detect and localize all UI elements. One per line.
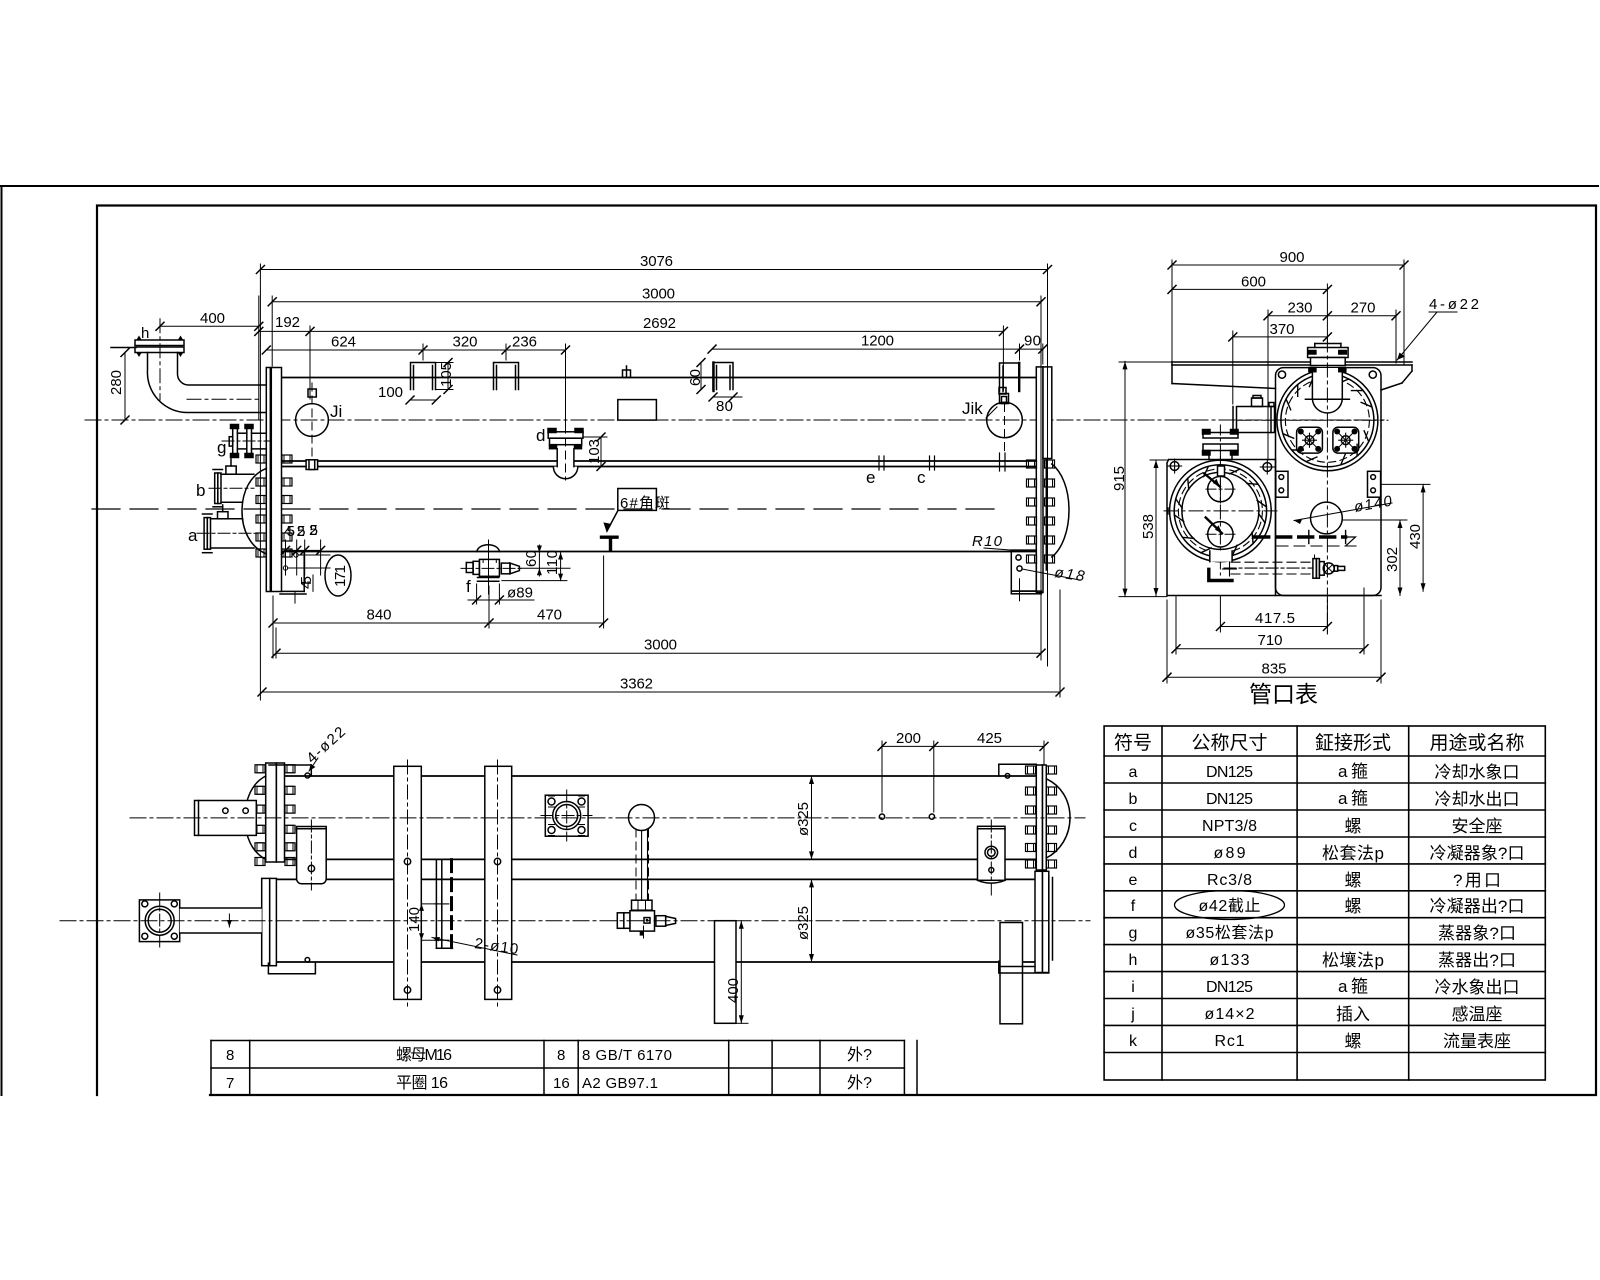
bottom opening of lower circle: [1210, 551, 1232, 562]
svg-text:Ji: Ji: [330, 402, 342, 421]
svg-text:鉦接形式: 鉦接形式: [1315, 732, 1391, 754]
dim 417.5: [1219, 596, 1221, 633]
tube pass square right: [1333, 427, 1359, 453]
svg-text:蒸器象?口: 蒸器象?口: [1438, 924, 1516, 943]
svg-text:R10: R10: [972, 533, 1003, 550]
svg-text:e: e: [866, 468, 875, 487]
side lug plates: [1276, 471, 1288, 497]
support bracket 4 (right) on shell top: [1000, 363, 1020, 392]
svg-text:3076: 3076: [640, 253, 673, 270]
lower plate corner hole marks: [1168, 459, 1182, 473]
lower shell centerline (bottom view): [60, 920, 1090, 922]
dim 230: [1268, 315, 1327, 317]
svg-text:110: 110: [544, 550, 561, 575]
lower circle centerlines: [1164, 510, 1277, 512]
g nozzle flange pair (end view): [1203, 425, 1239, 462]
dim ø325 upper: [795, 776, 814, 859]
dim 835: [1166, 600, 1168, 683]
svg-text:400: 400: [725, 978, 742, 1003]
support bracket 2 on shell top: [494, 363, 519, 390]
upper plate corner holes: [1278, 371, 1285, 378]
svg-text:d: d: [536, 426, 545, 445]
svg-text:430: 430: [1407, 524, 1424, 549]
nozzle table grid: [1104, 726, 1545, 1080]
svg-text:900: 900: [1280, 249, 1305, 266]
lower flange circle rings: [1170, 460, 1272, 562]
svg-text:松套法p: 松套法p: [1322, 844, 1384, 863]
pipe lines to k valve: [1224, 562, 1313, 574]
dim 370: [1233, 336, 1328, 338]
svg-text:915: 915: [1111, 466, 1128, 491]
left dished head: [242, 468, 266, 554]
dim 100: [410, 399, 436, 401]
svg-text:16: 16: [553, 1075, 570, 1092]
lower shell top line: [281, 466, 1036, 468]
lower shell bottom line: [281, 551, 1036, 553]
svg-text:b: b: [1129, 791, 1138, 808]
drain channel between saddles: [435, 860, 453, 949]
ø140 label leader: [1294, 503, 1392, 521]
svg-text:ø325: ø325: [795, 906, 812, 940]
right lower flange plates: [1035, 871, 1043, 972]
drawing inner frame: [97, 206, 1596, 1096]
6#角斑 leader: [605, 510, 619, 531]
svg-text:外?: 外?: [847, 1074, 872, 1092]
dim 105 rotated: [447, 363, 449, 390]
svg-text:Rc3/8: Rc3/8: [1207, 872, 1252, 889]
saddle plate 2: [485, 760, 512, 1006]
svg-text:螺: 螺: [1345, 897, 1362, 916]
svg-text:螺: 螺: [1345, 871, 1362, 890]
dim 110 rotated (f): [560, 553, 562, 581]
extension lines: [259, 264, 261, 700]
dim 270: [1327, 315, 1396, 317]
svg-text:a: a: [188, 526, 198, 545]
svg-text:140: 140: [406, 907, 423, 932]
svg-text:蒸器出?口: 蒸器出?口: [1438, 951, 1516, 970]
svg-text:j: j: [1130, 1006, 1135, 1023]
svg-text:f: f: [466, 577, 471, 596]
saddle plate 1: [394, 760, 422, 1006]
lower shell lines: [276, 878, 1037, 880]
svg-text:90: 90: [1024, 333, 1041, 350]
right foot plate: [999, 961, 1049, 973]
svg-text:3000: 3000: [642, 286, 675, 303]
dim 60 rotated (bracket3): [700, 363, 702, 390]
svg-text:624: 624: [331, 334, 356, 351]
centerline hole circles 200/425: [879, 814, 884, 819]
left valve block assembly: [1233, 396, 1275, 433]
upper nozzle pipe into circle: [1305, 368, 1349, 413]
right support leg: [1000, 923, 1023, 1024]
svg-text:400: 400: [200, 310, 225, 327]
small lug on shell top: [623, 366, 631, 378]
svg-text:螺: 螺: [1345, 1032, 1362, 1051]
svg-text:ø42截止: ø42截止: [1199, 897, 1261, 915]
lower flange plates left: [262, 878, 270, 965]
lifting lug plate left: [195, 801, 257, 836]
dim 103 rotated: [600, 437, 602, 467]
section ellipse 171: [325, 555, 351, 596]
svg-text:冷却水出口: 冷却水出口: [1435, 790, 1520, 809]
heavy angle bracket lower left: [1209, 569, 1232, 580]
d nozzle on shells: [548, 425, 583, 480]
svg-text:a: a: [1129, 764, 1138, 781]
f valve: [461, 540, 521, 594]
left flange bolts (bottom view): [255, 765, 295, 866]
svg-text:A2 GB97.1: A2 GB97.1: [582, 1075, 658, 1092]
svg-text:h: h: [1129, 952, 1138, 969]
svg-text:45: 45: [298, 576, 315, 589]
svg-text:236: 236: [512, 334, 537, 351]
svg-text:e: e: [1129, 872, 1138, 889]
j sensor assembly (bottom view): [617, 805, 675, 939]
svg-text:b: b: [196, 481, 205, 500]
svg-text:270: 270: [1351, 300, 1376, 317]
right dished head: [1052, 464, 1069, 557]
dim 280: [108, 349, 129, 425]
upper shell centerline: [85, 419, 1384, 421]
upper head arc left: [245, 776, 266, 859]
svg-text:302: 302: [1384, 547, 1401, 572]
ø140 hole: [1311, 502, 1343, 534]
dim 600: [1172, 288, 1327, 290]
left flange plates upper: [266, 763, 277, 862]
svg-text:835: 835: [1262, 661, 1287, 678]
svg-text:用途或名称: 用途或名称: [1430, 732, 1525, 754]
svg-text:i: i: [1131, 979, 1135, 996]
svg-text:8: 8: [226, 1047, 234, 1064]
svg-text:ø35松套法p: ø35松套法p: [1186, 924, 1274, 942]
dim 538 between views: [1155, 460, 1157, 596]
svg-text:螺: 螺: [1345, 817, 1362, 836]
svg-text:松壤法p: 松壤法p: [1322, 950, 1384, 970]
svg-text:103: 103: [586, 439, 603, 464]
nozzle b: [209, 459, 254, 507]
svg-text:7: 7: [226, 1075, 234, 1092]
svg-text:60: 60: [687, 369, 704, 386]
right head arc (bottom view): [1046, 779, 1070, 858]
svg-text:a箍: a箍: [1338, 977, 1368, 996]
svg-text:200: 200: [896, 730, 921, 747]
svg-text:105: 105: [438, 362, 455, 387]
nameplate rect on upper centerline: [618, 400, 657, 421]
svg-text:25: 25: [309, 522, 318, 539]
svg-text:2692: 2692: [643, 315, 676, 332]
svg-text:470: 470: [537, 607, 562, 624]
svg-text:g: g: [217, 438, 226, 457]
svg-text:1200: 1200: [861, 333, 894, 350]
upper shell lines: [285, 775, 1037, 777]
svg-text:c: c: [1129, 818, 1137, 835]
svg-text:45: 45: [284, 523, 295, 540]
dim 3000 bottom: [276, 652, 1041, 654]
dim 302: [1342, 519, 1407, 521]
lower plate: [1167, 460, 1381, 596]
dim 430: [1381, 483, 1430, 485]
svg-text:管口表: 管口表: [1249, 681, 1318, 707]
svg-text:冷水象出口: 冷水象出口: [1435, 978, 1520, 997]
dim 200/425: [878, 730, 1048, 812]
nozzle h elbow: [111, 319, 266, 413]
svg-text:25: 25: [297, 523, 306, 540]
svg-text:ø325: ø325: [795, 802, 812, 836]
end view extension lines: [1171, 260, 1173, 362]
svg-text:8: 8: [557, 1047, 565, 1064]
dim 915 between views: [1124, 361, 1126, 596]
upper circle bolt ticks: [1283, 376, 1371, 464]
left support leg: [715, 921, 737, 1024]
right flange bolts: [1027, 460, 1055, 563]
svg-text:280: 280: [108, 370, 125, 395]
svg-text:符号: 符号: [1114, 732, 1152, 754]
dim 60 rotated (f): [538, 545, 540, 576]
plate divider line: [1275, 460, 1277, 596]
dims 45 25 25: [282, 540, 325, 575]
dim ø89: [476, 584, 478, 604]
f row ellipse: [1175, 891, 1285, 920]
g nozzle neck into lower circle: [1218, 466, 1225, 476]
svg-text:4-ø22: 4-ø22: [1429, 296, 1479, 313]
c nozzle tick: [930, 456, 935, 470]
left tube sheet plates: [266, 368, 270, 592]
dim 840/470: [273, 622, 604, 624]
upper shell bottom line: [281, 460, 1036, 462]
svg-text:?用口: ?用口: [1453, 871, 1501, 890]
svg-text:600: 600: [1241, 273, 1266, 290]
dim 900: [1172, 264, 1404, 266]
svg-text:3000: 3000: [644, 637, 677, 654]
dim 624/320/236 line: [266, 349, 565, 351]
right support bracket: [1011, 550, 1041, 601]
svg-text:平圈 16: 平圈 16: [396, 1074, 448, 1092]
svg-text:ø14×2: ø14×2: [1205, 1006, 1255, 1023]
Jik hole circle: [987, 402, 1023, 438]
svg-text:230: 230: [1288, 300, 1313, 317]
dim 140 (drain holes): [406, 904, 438, 940]
dim 45 rotated lower: [312, 575, 314, 591]
svg-text:冷凝器象?口: 冷凝器象?口: [1430, 844, 1525, 863]
dim 710: [1175, 596, 1177, 655]
svg-text:g: g: [1129, 925, 1138, 942]
svg-text:f: f: [1131, 898, 1136, 915]
svg-text:a箍: a箍: [1338, 789, 1368, 808]
dim 1200/90 line: [712, 348, 1043, 350]
svg-text:DN125: DN125: [1206, 764, 1253, 781]
svg-text:d: d: [1129, 845, 1138, 862]
small circles weld marks: [294, 553, 298, 557]
right flange plates (bottom view): [1036, 765, 1042, 870]
upper tube hole: [1204, 473, 1235, 503]
svg-text:h: h: [141, 325, 149, 342]
c nozzle cylinder: [297, 820, 327, 890]
sheet outer border top: [0, 185, 1598, 187]
svg-text:流量表座: 流量表座: [1443, 1032, 1511, 1051]
upper shell top line: [281, 377, 1036, 379]
dim 2692 with 192: [259, 330, 1004, 332]
lower tube hole: [1206, 518, 1235, 548]
svg-text:320: 320: [453, 334, 478, 351]
Ji hole circle: [296, 383, 329, 474]
svg-text:ø133: ø133: [1210, 952, 1250, 969]
svg-text:ø89: ø89: [1214, 845, 1246, 862]
svg-text:425: 425: [977, 730, 1002, 747]
upper nozzle flange (h): [1308, 344, 1349, 372]
svg-text:螺母M16: 螺母M16: [396, 1046, 452, 1064]
svg-text:370: 370: [1270, 321, 1295, 338]
parts table grid: [211, 1040, 904, 1042]
svg-text:60: 60: [523, 550, 540, 567]
tube pass square left: [1297, 427, 1323, 453]
svg-text:k: k: [1129, 1033, 1138, 1050]
lower circle bolt ticks: [1174, 466, 1266, 555]
svg-text:100: 100: [378, 384, 403, 401]
6#角斑 label box: [618, 489, 657, 511]
nozzle i square flange: [139, 893, 179, 948]
svg-text:538: 538: [1140, 514, 1157, 539]
svg-text:Jik: Jik: [962, 399, 983, 418]
svg-text:DN125: DN125: [1206, 979, 1253, 996]
support bracket 3 on shell top: [713, 363, 733, 390]
dim ø325 lower: [795, 879, 814, 962]
svg-text:840: 840: [367, 607, 392, 624]
svg-text:冷却水象口: 冷却水象口: [1435, 763, 1520, 782]
third tick pair: [1000, 453, 1006, 471]
svg-text:8 GB/T 6170: 8 GB/T 6170: [582, 1047, 672, 1064]
svg-text:外?: 外?: [847, 1046, 872, 1064]
svg-text:417.5: 417.5: [1255, 610, 1295, 627]
e nozzle tick: [879, 456, 884, 470]
left support foot plate: [268, 958, 315, 974]
svg-text:710: 710: [1258, 632, 1283, 649]
svg-text:a箍: a箍: [1338, 762, 1368, 781]
svg-text:DN125: DN125: [1206, 791, 1253, 808]
angle iron section: [602, 536, 618, 539]
svg-text:192: 192: [275, 314, 300, 331]
lower shell centerline: [92, 508, 1000, 510]
svg-text:80: 80: [716, 398, 733, 415]
svg-text:感温座: 感温座: [1452, 1005, 1503, 1024]
dim 400: [156, 310, 263, 330]
sheet outer border left: [1, 186, 3, 1095]
right flange bolts (bottom view): [1026, 766, 1057, 868]
nozzle a: [197, 505, 258, 553]
right tube sheet plates: [1036, 367, 1043, 593]
upper circle centerlines: [1237, 419, 1388, 421]
svg-text:3362: 3362: [620, 676, 653, 693]
upper square plate: [1276, 368, 1382, 596]
svg-text:c: c: [917, 468, 926, 487]
svg-text:NPT3/8: NPT3/8: [1202, 818, 1257, 835]
right lifting lug: [999, 764, 1037, 778]
dim 400 (leg): [725, 921, 748, 1024]
4-ø22 hole on flange lug: [269, 765, 311, 778]
svg-text:安全座: 安全座: [1452, 817, 1503, 836]
svg-text:171: 171: [332, 565, 349, 587]
svg-text:插入: 插入: [1336, 1005, 1370, 1024]
svg-text:公称尺寸: 公称尺寸: [1192, 732, 1268, 754]
svg-text:ø89: ø89: [507, 585, 533, 602]
nozzle g flange: [222, 425, 270, 458]
left flange bolts: [256, 455, 292, 557]
dim 80 (bracket3): [713, 396, 742, 398]
svg-text:冷凝器出?口: 冷凝器出?口: [1430, 897, 1525, 916]
support bracket 1 on shell top: [411, 363, 436, 390]
dim 3362: [262, 691, 1060, 693]
dim 3000 top: [272, 301, 1041, 303]
heavy dashed baffle line: [1255, 535, 1346, 538]
upper shell centerline (bottom view): [130, 817, 1085, 819]
dim 3076: [260, 269, 1047, 271]
svg-text:Rc1: Rc1: [1215, 1033, 1245, 1050]
mounting plate: [1172, 362, 1412, 390]
Jik leader: [986, 407, 997, 418]
left support plate under head: [280, 552, 306, 604]
nozzle i pipe: [180, 908, 262, 933]
k valve: [1313, 555, 1345, 578]
svg-text:6#角斑: 6#角斑: [620, 495, 670, 512]
upper flange circle rings: [1277, 370, 1378, 471]
d square flange (bottom view): [541, 790, 592, 841]
right saddle front: [978, 820, 1006, 895]
